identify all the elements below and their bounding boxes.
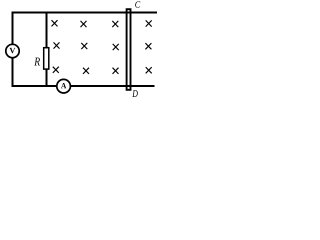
flux cross r2c4 [145,43,151,49]
flux cross r1c3 [112,21,118,27]
flux cross r3c3 [113,68,119,74]
label C [135,1,140,7]
flux cross r2c2 [81,43,87,49]
wire left [12,12,14,88]
flux cross r2c1 [54,42,60,48]
flux cross r1c2 [81,21,87,27]
flux cross r2c3 [113,44,119,50]
flux cross r3c1 [53,67,59,73]
wire bottom rail crossing rod [125,85,133,87]
wire top rail crossing rod [125,12,133,14]
label D [132,90,138,97]
rod CD [127,9,131,90]
label R [34,58,40,66]
flux cross r1c4 [146,20,152,26]
flux cross r3c4 [146,67,152,73]
flux cross r3c2 [83,68,89,74]
voltmeter V [6,44,19,57]
ammeter A [57,79,71,93]
resistor R [44,48,49,69]
flux cross r1c1 [52,20,58,26]
wire bottom rail [12,85,155,87]
wire middle branch [46,12,48,88]
wire top rail [12,12,158,14]
